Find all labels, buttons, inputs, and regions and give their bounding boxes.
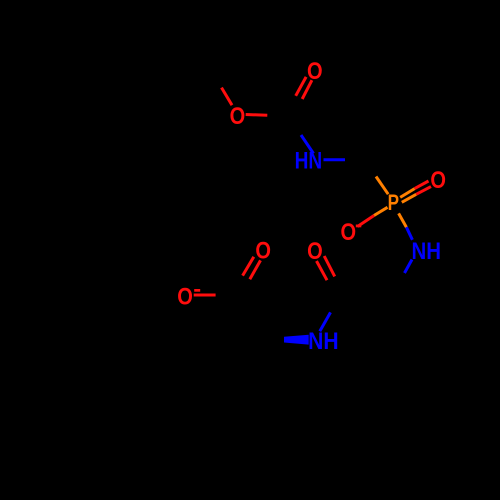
svg-text:O: O [230,103,246,130]
wire P=O double bond line 2 O half [416,187,431,195]
wire carbamate C=O double bond line 1 (O half) [302,80,312,99]
node carboxylate O minus charge dash [194,289,200,292]
svg-text:O: O [255,237,271,264]
svg-text:HN: HN [295,148,323,175]
wire carbamate C=O double bond line 2 (O half) [296,77,306,96]
wire P to amide N bond P half [399,213,407,227]
wire carbamate C to N bond (N half) [301,135,314,154]
wire P to amide N bond N half [406,227,412,240]
node phosphonate O minus charge dash [356,225,362,228]
wire ester O to carbamate C bond (O half) [246,113,268,117]
wire amide C to N bond (N half) [320,312,331,331]
wire carboxylate O(-) to C bond (O half) [194,294,216,297]
wire P=O double bond line 1 O half [415,181,429,189]
wire phosphonamide N to CH2 bond (N half) [405,260,413,274]
svg-text:O: O [430,167,446,194]
wire carboxylate C=O double bond line 1 (O half) [250,260,261,279]
wire P=O double bond line 1 P half [400,189,414,198]
svg-text:O: O [307,238,323,265]
wire P to O(-) bond O half [358,216,375,227]
wire amide C=O double bond line 2 (O half) [317,261,328,280]
wire CH2 to P bond (P half) [376,177,388,195]
wire P=O double bond line 2 P half [402,194,416,202]
svg-text:O: O [307,58,323,85]
wire stereo wedge bond to amide N (N half, solid wedge) [284,335,309,345]
svg-text:P: P [388,190,399,215]
wire amide C=O double bond line 1 (O half) [324,256,335,276]
svg-text:NH: NH [412,238,442,265]
wire carboxylate C=O double bond line 2 (O half) [243,257,254,276]
svg-text:O: O [177,283,193,310]
wire benzyl CH2 to ester O bond (O half) [222,88,233,106]
wire P to O(-) bond P half [374,207,388,215]
svg-text:NH: NH [308,328,339,355]
svg-text:O: O [341,219,357,246]
wire carbamate N to CH2 bond (N half) [324,158,346,161]
